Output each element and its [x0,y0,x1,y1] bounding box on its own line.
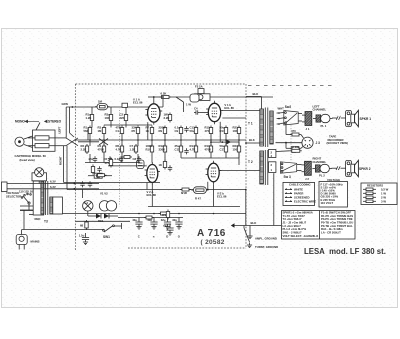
resistor grid stopper [180,188,191,191]
junction [225,139,227,141]
svg-text:470K: 470K [98,147,105,151]
wire [301,146,304,148]
wire [211,141,231,143]
wire [151,185,153,207]
svg-text:J 2: J 2 [305,177,309,181]
wire [88,215,96,217]
junction [178,213,180,215]
resistor 50u row A [190,126,198,136]
dropper resistor 1K [144,216,154,219]
wire [238,154,240,158]
wire [85,162,140,164]
svg-text:1.2K: 1.2K [86,116,92,120]
wire Sw2 to J1 [298,113,302,115]
resistor R10 row B [146,144,154,154]
pilot lamp [35,168,44,177]
cable coding row SCREENED [285,197,292,198]
resistor R31 2.2M [122,156,132,159]
svg-text:MONO: MONO [15,120,25,124]
resistor R30 [91,165,94,175]
resistor C11 row B [175,144,183,154]
wire [210,136,212,147]
resistor 470 row A [205,126,213,136]
tube V2A ECL86 (right channel preamp) [145,162,160,185]
svg-text:1M: 1M [98,129,103,133]
wire mid bus [74,139,246,141]
svg-text:470: 470 [205,129,210,133]
resistor R5 row A [132,126,140,136]
svg-text:F2 2A: F2 2A [195,85,203,89]
wire [219,122,221,142]
svg-text:C8: C8 [133,157,137,161]
svg-text:GRN: GRN [62,102,68,106]
resistor 330K row B [159,144,167,154]
wire [222,117,246,119]
wire [207,182,209,190]
parts list table [282,211,356,240]
resistor wattage row 1 W [363,192,366,194]
svg-text:6.3V: 6.3V [50,179,56,183]
svg-text:R 47: R 47 [195,197,201,201]
filter capacitor 40u [132,218,142,230]
svg-text:(head view): (head view) [20,158,35,162]
wire left signal rise [65,107,67,138]
mono/stereo selector labels [15,120,62,124]
wire [103,136,105,147]
resistor 2.2K row B [81,144,89,154]
wire [55,145,66,147]
junction [89,139,91,141]
svg-text:1.5u: 1.5u [79,234,85,238]
wire [195,136,197,147]
wire [78,141,99,143]
svg-text:Sw2: Sw2 [285,105,292,109]
resistor 470K row B [98,144,106,154]
svg-text:110 VOLT: 110 VOLT [321,201,334,205]
wire [225,136,227,147]
svg-text:6.2K: 6.2K [161,91,167,95]
T1 secondary taps [277,112,279,114]
wire [164,154,166,163]
svg-text:LESA mod. LF 380 st.: LESA mod. LF 380 st. [304,247,386,256]
ganged pot link (dotted) [119,110,121,205]
feedback arrow [227,140,232,145]
speaker SPKR1 [346,110,359,126]
svg-text:CHANNEL: CHANNEL [313,160,327,164]
svg-text:50u: 50u [190,129,195,133]
svg-text:47K: 47K [105,161,110,165]
heater circle V1 [99,201,109,211]
svg-text:10K: 10K [105,116,110,120]
transformer T3 secondary winding [50,197,53,214]
resistor 470K row B [205,144,213,154]
svg-text:SELECTOR: SELECTOR [6,194,21,198]
wire Sw3 to J2 [297,164,302,166]
svg-text:n: n [153,235,155,239]
wire right channel line B [67,189,246,191]
resistors legend box [361,183,397,205]
svg-text:RS1: RS1 [98,219,104,223]
svg-text:50u: 50u [163,224,168,228]
resistor R50 470 [162,210,170,220]
wire B+ top rail [163,96,273,98]
transformer T3 primary winding [33,181,44,215]
capacitor C8 [133,156,142,162]
capacitor C40 [168,165,172,171]
wire [125,123,127,128]
wire [286,147,291,149]
svg-text:LA: LA [85,201,89,205]
transformer T1 core [264,108,266,148]
wire [164,136,166,147]
resistor R52 68 [80,220,88,230]
svg-text:MAINS: MAINS [31,240,40,244]
svg-text:2.2K: 2.2K [164,116,170,120]
voltage table box [319,182,348,208]
cable coding legend box [283,182,315,205]
wire [151,154,153,163]
svg-text:( 20582: ( 20582 [201,239,225,246]
svg-text:6.3V: 6.3V [50,185,56,189]
capacitor C6 [104,156,113,162]
svg-text:1K: 1K [146,129,150,133]
heater wire 6.3V lower [7,188,99,190]
svg-text:J 1: J 1 [306,127,310,131]
wire [225,154,227,158]
wire Sw3 down [273,173,275,225]
transformer T2 secondary terminals upper [269,150,276,158]
svg-text:3 W: 3 W [381,199,386,203]
wire [195,154,197,158]
svg-text:CHANNEL: CHANNEL [313,108,327,112]
resistor wattage row 3 W [363,200,366,202]
resistor 150 row B [233,144,241,154]
wire right channel line A [64,181,161,183]
svg-text:ECL 86: ECL 86 [133,100,143,104]
top scan dash row [248,85,332,87]
panel lamp LA [83,201,93,211]
wire [69,107,71,133]
junction [180,139,182,141]
svg-text:1.2K: 1.2K [130,147,136,151]
svg-text:A 716: A 716 [197,228,226,239]
capacitor C32 [97,166,101,172]
plug PL1 [316,115,321,122]
junction [153,213,155,215]
wire row link [104,124,152,126]
svg-text:BLK: BLK [253,92,259,96]
svg-text:Sw 3: Sw 3 [284,175,291,179]
voltage selector switch [19,190,40,211]
wire supply rail [62,213,246,215]
wire [246,142,260,144]
svg-text:VOLT SELECT. -GmW28L/4: VOLT SELECT. -GmW28L/4 [283,234,319,238]
svg-text:ECL 86: ECL 86 [224,106,234,110]
wire [279,112,284,115]
heater wire 6.3V upper [7,183,99,185]
wire V1A plate to B+ rail [153,97,155,102]
svg-text:C9: C9 [175,129,179,133]
svg-text:2.2K: 2.2K [81,147,87,151]
svg-text:T 1: T 1 [248,122,253,126]
mains switch SW1 [103,223,122,239]
svg-text:32u: 32u [172,218,177,222]
svg-text:1 W: 1 W [186,103,191,107]
wire [151,136,153,147]
svg-text:ECL 86: ECL 86 [147,193,157,197]
jack J2 (hatched) [305,161,312,175]
wire plate V2B to T2 [219,170,260,172]
svg-text:BLK: BLK [249,138,255,142]
capacitor C31 [88,181,92,187]
chassis boundary (dashed) [76,84,247,250]
transformer T2 core [264,150,266,185]
resistor 2.2K top row [164,113,172,123]
svg-text:10 1W: 10 1W [291,145,299,149]
resistor 4.7K heater hum pot [96,174,107,177]
svg-text:SW1: SW1 [103,235,110,239]
svg-text:R9: R9 [159,129,163,133]
junction [195,139,197,141]
svg-text:T 2: T 2 [248,160,253,164]
switch gang link (dotted) [290,126,292,162]
speaker switch Sw3 [280,162,296,173]
wire [238,136,240,147]
wire [180,154,182,158]
filter capacitor 32u [161,218,171,230]
wire [210,154,212,158]
speaker cable with break [332,116,346,120]
svg-text:32u: 32u [161,218,166,222]
wire [91,123,93,128]
svg-text:D: D [166,235,168,239]
mains plug [16,230,27,250]
transformer T1 primary winding [260,109,264,146]
capacitor 25u [89,156,98,162]
svg-text:4.7K: 4.7K [116,147,122,151]
selector-to-T3 taps [20,205,33,207]
svg-text:WHT: WHT [278,106,285,110]
tube V2B ECL86 (right channel output) [206,161,222,185]
resistor 4.7K row B [116,144,124,154]
svg-text:C4: C4 [194,107,198,111]
resistor 10 1W [290,145,302,152]
wire [89,154,91,163]
resistor 22K top row [120,113,128,123]
resistor 10K top row [105,113,113,123]
svg-text:LA - CR 209L/T: LA - CR 209L/T [321,231,341,235]
rectifier diode RS1b [104,214,109,219]
ground bus wire [235,225,282,227]
filter cap C50 [163,224,173,236]
junction [167,213,169,215]
plug PL2 [315,165,320,172]
resistor 4.7K row B [190,144,198,154]
junction [121,139,123,141]
fuse holder F1 on B+ rail [195,85,211,101]
triode section symbol (V2 small) [137,160,145,169]
svg-text:25u: 25u [89,157,94,161]
resistor C17 row B [220,144,228,154]
wire [246,96,262,98]
tape socket J3 [302,137,313,148]
resistor column V2 row [105,158,113,168]
filter capacitor 32u [172,218,182,230]
cartridge stylus [15,136,33,148]
svg-text:TURNT. GROUND: TURNT. GROUND [255,245,278,249]
wire [38,181,40,184]
wire [108,165,147,167]
wire [89,136,91,147]
resistor 1M row A [98,126,106,136]
wire [200,112,208,114]
svg-text:ECL 86: ECL 86 [217,195,227,199]
svg-text:470: 470 [291,129,296,133]
small caps row under V1B [184,126,188,132]
resistor 56K row A [84,126,92,136]
volume potentiometer P1 1M [95,99,110,109]
wire [276,150,290,153]
mains fuse F1 [88,173,112,178]
speaker cable with break [332,166,346,170]
amplifier ground symbol [249,226,251,234]
cable coding row ELECTRIC WIRE [285,201,292,202]
capacitor C30 [80,181,84,187]
junction [164,139,166,141]
capacitor 0.1u [115,156,124,162]
svg-text:CABLE CODING: CABLE CODING [289,183,311,187]
svg-text:1M: 1M [98,99,103,103]
svg-text:V1 V2: V1 V2 [100,191,108,195]
resistor R17 row A [220,126,228,136]
junction [213,213,215,215]
wire [110,107,112,113]
svg-text:1K: 1K [159,163,163,167]
triode section symbol (V1 small) [190,94,199,102]
wire [55,137,66,139]
wire [121,136,123,147]
resistor R13 6.2K (series feed) [160,91,172,98]
wire [146,183,148,190]
junction [137,139,139,141]
transformer T2 secondary terminals lower [269,162,276,173]
svg-text:(SOCKET VIEW): (SOCKET VIEW) [327,141,349,145]
resistor R40 [159,160,167,170]
svg-text:8/1R: 8/1R [181,191,187,195]
left edge connector [2,182,8,192]
svg-text:C11: C11 [175,147,180,151]
svg-text:40u: 40u [132,218,137,222]
wire [66,146,68,190]
wire [91,107,93,113]
svg-text:330K: 330K [159,147,166,151]
transformer T2 primary winding [260,151,264,184]
svg-text:J 3: J 3 [316,141,321,145]
wire [76,220,131,222]
wire [87,128,89,141]
wire [63,146,65,183]
svg-text:RIGHT: RIGHT [59,156,63,165]
resistor 10K row A [233,126,241,136]
svg-text:ELECTRIC WIRE: ELECTRIC WIRE [294,200,316,204]
crossover X (stereo switch side) [99,139,108,146]
svg-text:SPKR 1: SPKR 1 [360,117,372,121]
filter capacitor 40u [147,218,157,230]
wire [23,210,25,230]
resistor 470 (tape upper) [290,129,301,136]
wire [285,143,287,149]
tube V1A ECL86 (left channel preamp) [145,101,162,124]
junction [103,139,105,141]
svg-text:0.1u: 0.1u [115,157,121,161]
wire [148,96,163,98]
resistor wattage row 2 W [363,196,366,198]
junction [138,213,140,215]
resistor R9 row A [159,126,167,136]
tube V1B ECL86 (left channel output) [206,101,223,124]
filter cap C52 [79,233,89,245]
svg-text:SPKR 2: SPKR 2 [359,167,371,171]
svg-text:C1: C1 [116,129,120,133]
junction [151,139,153,141]
resistor 1.2K top row [86,113,94,123]
svg-text:C: C [138,235,140,239]
pilot lamp bracket [32,173,47,181]
wire [125,107,127,113]
svg-text:PL 2: PL 2 [319,174,325,178]
speaker SPKR2 [346,160,359,176]
wire row link [181,157,239,159]
channel crossover X [66,138,78,146]
wire [285,121,287,135]
wire mains lead [22,229,104,231]
wire HT rail to caps [118,217,183,219]
cartridge pickup body [28,130,55,151]
svg-text:150: 150 [233,147,238,151]
svg-text:R5: R5 [132,129,136,133]
wire [147,122,149,140]
wire right channel return [245,190,247,226]
resistor wattage row 1/2 W [363,188,366,190]
wire [82,189,84,198]
svg-text:PL 1: PL 1 [321,124,327,128]
wire [137,136,139,147]
wire [238,142,240,165]
svg-text:STEREO: STEREO [48,120,62,124]
speaker switch Sw2 [284,105,298,125]
resistor 470 (tape lower) [290,147,301,154]
wire [213,184,215,206]
wire [162,97,164,107]
transformer T3 core [45,181,47,215]
resistor C1 row A [116,126,124,136]
svg-text:C17: C17 [220,147,226,151]
jack J1 (hatched) [305,112,312,126]
svg-text:470K: 470K [205,147,212,151]
cable coding row WHITE [285,189,292,190]
rectifier diode RS1a [96,214,101,219]
svg-text:22K: 22K [120,116,125,120]
turntable ground symbol [243,226,245,229]
svg-text:AMPL. GROUND: AMPL. GROUND [255,236,277,240]
wire lower B+ rail [148,206,240,208]
dropper resistor 2.2K [159,212,169,215]
wire [137,154,139,163]
junction [210,139,212,141]
wire [180,136,182,147]
wire tape mid [276,142,303,144]
wire [301,135,304,139]
